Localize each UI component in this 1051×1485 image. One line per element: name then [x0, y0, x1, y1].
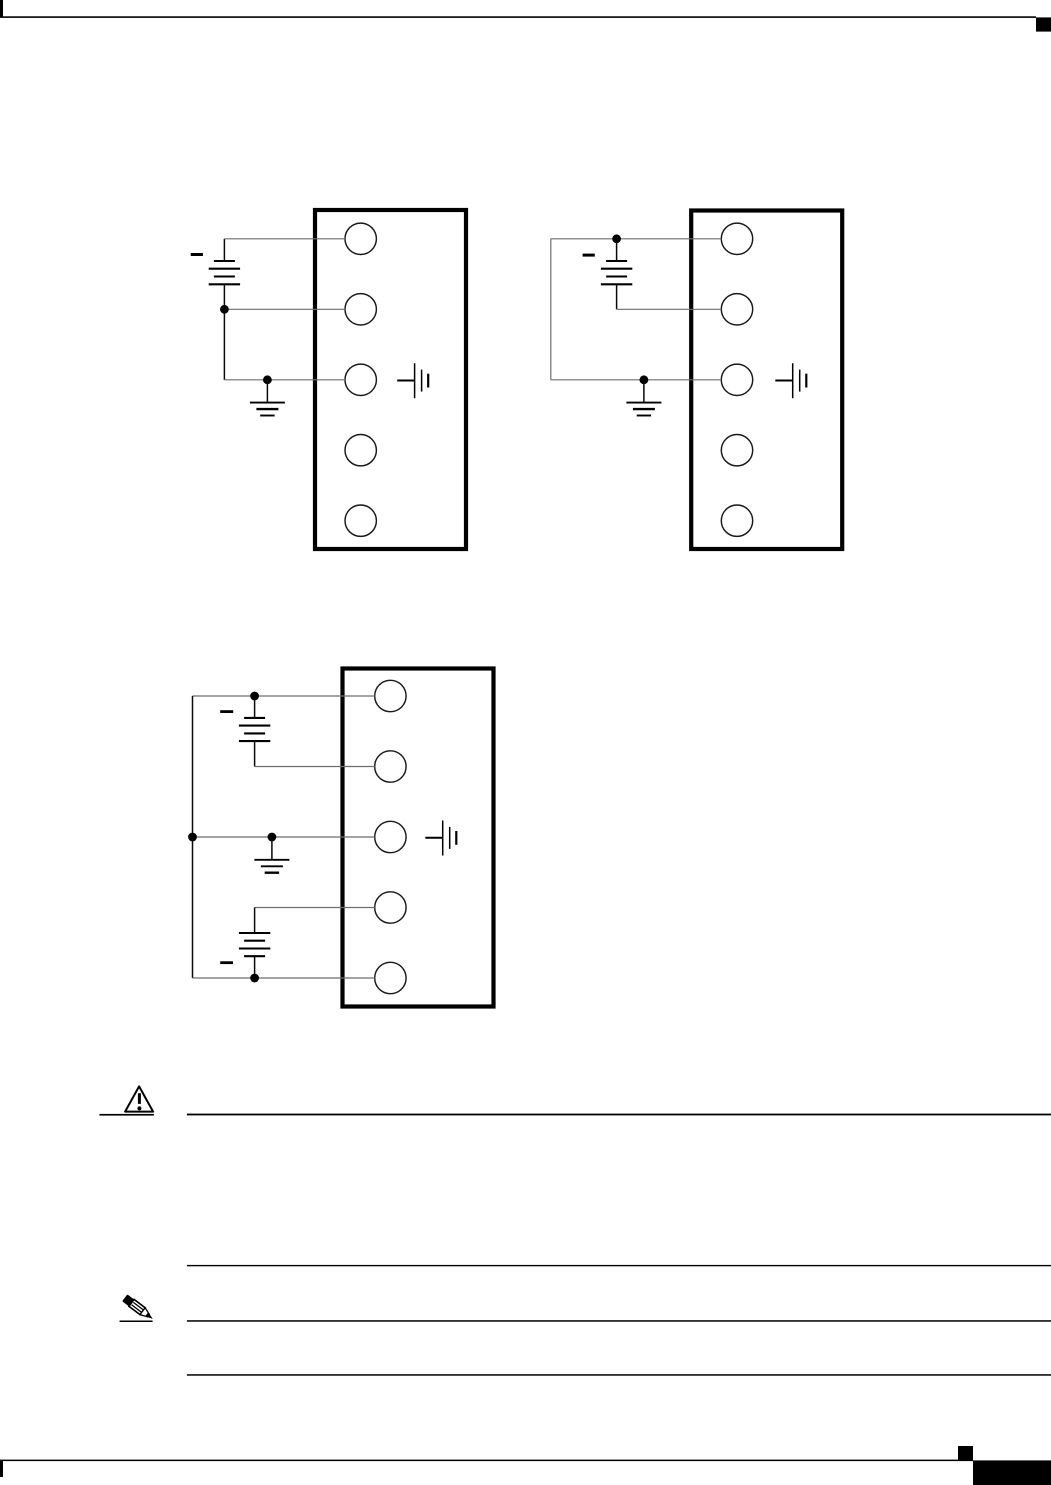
wire BT1 to TB1-1	[224, 238, 345, 240]
wire node down	[223, 309, 225, 380]
header rule	[0, 16, 1036, 18]
battery BT3 minus label	[220, 710, 233, 713]
wire mid to TB3-3	[193, 836, 375, 838]
header right square	[1036, 17, 1051, 31]
footer small square	[958, 1446, 973, 1461]
terminal TB2-1	[721, 223, 752, 254]
terminal TB1-3	[345, 364, 376, 395]
terminal TB1-4	[345, 435, 376, 466]
wire BT1 bottom stem	[223, 284, 225, 309]
wire BT4 top stem	[254, 908, 256, 934]
note bottom rule	[187, 1374, 1051, 1376]
header left mark	[0, 0, 3, 18]
terminal TB1-2	[345, 294, 376, 325]
junction dot BT4 negative node	[250, 974, 259, 983]
wire BT3 bottom stem	[254, 741, 256, 766]
battery BT3	[239, 718, 270, 741]
terminal TB2-5	[721, 505, 752, 536]
battery BT2	[601, 261, 632, 284]
wire top to TB2-1	[551, 238, 722, 240]
caution icon underline	[99, 1114, 153, 1116]
wire BT3 top stem	[254, 696, 256, 718]
battery BT2 minus label	[583, 254, 595, 257]
terminal TB2-3	[721, 364, 752, 395]
wire BT2 top stem	[616, 239, 618, 261]
terminal TB2-2	[721, 294, 752, 325]
terminal TB1-5	[345, 505, 376, 536]
battery BT1 minus label	[191, 253, 203, 256]
junction dot ground node	[640, 375, 649, 384]
footer rule	[0, 1460, 973, 1462]
terminal block TB1	[315, 210, 466, 549]
note top rule	[187, 1320, 1051, 1322]
terminal TB3-3	[375, 821, 406, 852]
junction dot ground node	[268, 833, 277, 842]
chassis ground symbol CG3	[425, 821, 456, 856]
terminal TB3-1	[375, 680, 406, 711]
chassis ground symbol CG1	[397, 363, 428, 398]
caution bottom rule	[187, 1265, 1051, 1266]
wire node to TB1-2	[224, 308, 345, 310]
junction dot ground node	[263, 375, 272, 384]
terminal TB1-1	[345, 223, 376, 254]
wire bottom to TB3-5	[193, 977, 375, 979]
earth ground G2	[626, 380, 661, 416]
note icon (pencil)	[122, 1294, 155, 1322]
wire left rail	[550, 239, 552, 380]
caution icon (warning triangle)	[125, 1086, 153, 1111]
wire BT1 top stem	[223, 239, 225, 261]
terminal TB3-4	[375, 892, 406, 923]
wire to TB1-3	[224, 379, 345, 381]
chassis ground symbol CG2	[775, 363, 806, 398]
wire bottom to TB2-3	[551, 379, 722, 381]
footer right block	[973, 1460, 1051, 1485]
battery BT1	[209, 261, 240, 284]
footer left mark	[0, 1460, 3, 1477]
caution top rule	[187, 1114, 1051, 1116]
wire BT4 bottom stem	[254, 956, 256, 978]
junction dot left rail node	[188, 833, 197, 842]
junction dot BT1 negative node	[220, 305, 229, 314]
wire to TB2-2	[617, 308, 722, 310]
terminal block TB2	[691, 211, 842, 550]
junction dot BT2 positive node	[612, 234, 621, 243]
wire BT2 bottom stem	[616, 284, 618, 309]
battery BT4	[239, 933, 270, 956]
junction dot BT3 positive node	[250, 692, 259, 701]
wire to TB3-2	[255, 766, 375, 768]
terminal TB3-2	[375, 751, 406, 782]
terminal TB2-4	[721, 435, 752, 466]
earth ground G1	[250, 380, 285, 416]
battery BT4 minus label	[220, 961, 233, 964]
wire top to TB3-1	[193, 695, 375, 697]
note icon underline	[120, 1321, 153, 1323]
terminal TB3-5	[375, 962, 406, 993]
earth ground G3	[254, 837, 289, 873]
wire left rail	[192, 696, 194, 978]
terminal block TB3	[343, 669, 494, 1007]
wire to TB3-4	[255, 907, 375, 909]
